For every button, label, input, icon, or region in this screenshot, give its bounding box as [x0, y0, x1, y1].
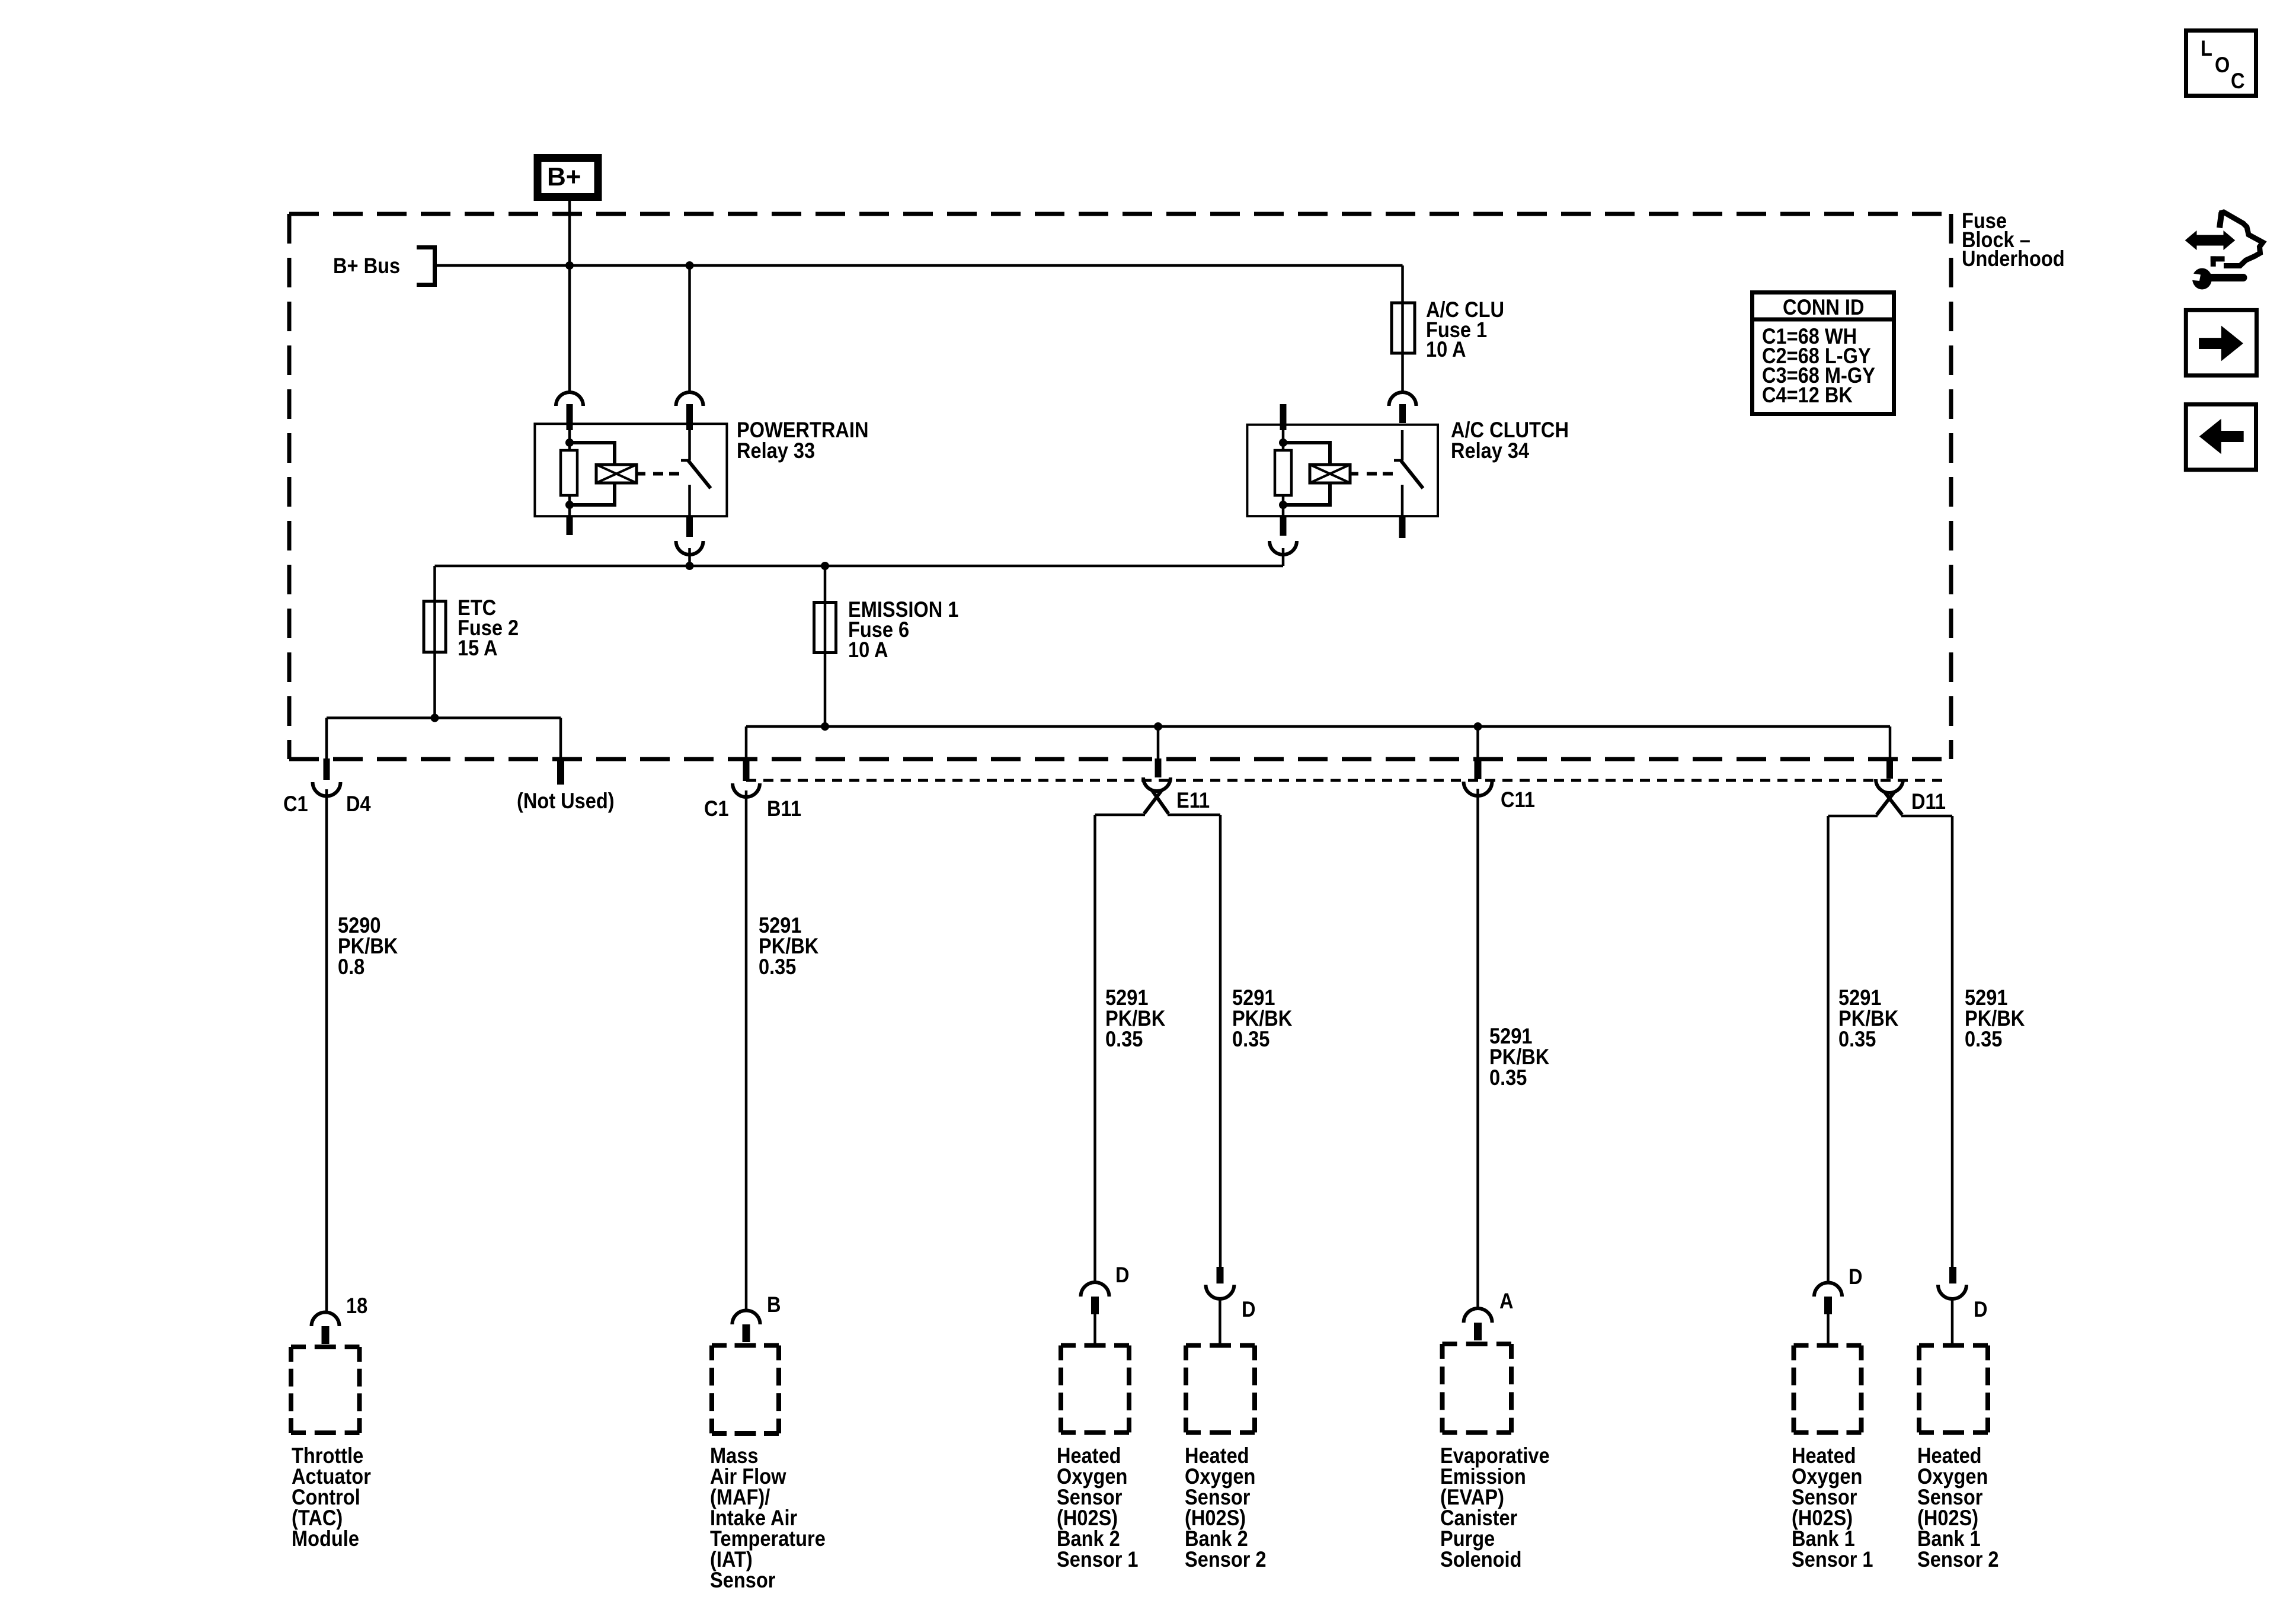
- wire D11 branch right: [1901, 815, 1952, 818]
- wire fuse 2 branch horizontal: [327, 716, 561, 719]
- wire rail to fuse 2: [433, 566, 436, 600]
- relay 33 actuation dashed link: [653, 472, 679, 476]
- previous page arrow: [2200, 420, 2244, 454]
- relay 33 coil box: [596, 465, 637, 483]
- LOC reference box: [2186, 31, 2256, 96]
- node relay 33 coil bottom: [565, 501, 574, 509]
- node B+ bus junction 2: [686, 261, 694, 270]
- wire 5291 B11 to MAF: [745, 790, 748, 1311]
- node rail at fuse 6 feed: [821, 562, 829, 570]
- wire label 5291 C11: [1489, 1026, 1549, 1088]
- relay 34 coil return connector: [1269, 541, 1297, 555]
- connector TAC pin 18: [312, 1313, 340, 1327]
- power symbol B+ box: [538, 158, 598, 197]
- label B+: [547, 167, 581, 187]
- service info vehicle icon double arrow: [2186, 231, 2235, 249]
- wire fuse 2 output: [433, 600, 436, 718]
- relay 34 switch output stub: [1399, 516, 1406, 538]
- relay K33 POWERTRAIN box: [535, 424, 727, 516]
- fuse block dashed border right: [1949, 214, 1953, 759]
- wire fuse 6 output rail: [746, 725, 1890, 728]
- heated oxygen sensor B2S2 box: [1186, 1343, 1255, 1348]
- wire relay 33 switch common: [688, 430, 691, 460]
- wire D11 branch left: [1828, 815, 1878, 818]
- connector C1-B11 socket: [733, 783, 760, 797]
- B+ Bus bracket: [417, 248, 435, 285]
- wire fuse 6 output: [824, 601, 827, 726]
- fuse F1 A/C CLU body: [1392, 303, 1415, 353]
- label CONN ID header: [1783, 297, 1864, 318]
- connector HO2S-B2S1 pin D: [1081, 1282, 1109, 1297]
- wire label 5291 E11 right: [1232, 987, 1292, 1049]
- relay 33 coil stub: [637, 472, 645, 476]
- wire rail to fuse 6: [824, 566, 827, 601]
- node rail at C11: [1474, 722, 1482, 731]
- pin label C1 right: [704, 799, 729, 819]
- pin label 18 TAC: [346, 1296, 367, 1316]
- node fuse 2 branch: [431, 714, 439, 722]
- wire E11 branch left: [1095, 814, 1146, 817]
- connector MAF pin B: [732, 1310, 760, 1324]
- node relay 33 coil top: [565, 438, 574, 447]
- CONN ID table box: [1753, 293, 1894, 414]
- pin label D B1S2: [1974, 1299, 1988, 1320]
- CONN ID table header rule: [1753, 318, 1894, 322]
- EVAP canister purge solenoid box: [1443, 1342, 1512, 1346]
- connector E11 pin stub: [1155, 758, 1162, 777]
- pin label A EVAP: [1499, 1291, 1514, 1311]
- LOC letter O: [2215, 55, 2230, 75]
- service info wrench icon: [2192, 268, 2212, 290]
- fuse F2 ETC body: [424, 601, 446, 652]
- wire label 5291 B11: [759, 915, 818, 977]
- label powertrain relay 33: [737, 420, 868, 461]
- wire relay 34 coil return to rail: [1282, 548, 1285, 566]
- node B+ bus junction 1: [565, 261, 574, 270]
- label fuse 1 A/C CLU 10A: [1426, 300, 1504, 360]
- connector E11 socket: [1143, 777, 1171, 791]
- relay 33 switch blade: [688, 460, 711, 488]
- pin label D4: [346, 794, 371, 814]
- next page arrow box: [2186, 310, 2256, 375]
- fuse F6 EMISSION 1 body: [814, 603, 836, 653]
- fuse block dashed border left: [287, 214, 292, 759]
- node rail at relay 33 output: [686, 562, 694, 570]
- connector C11 pin stub: [1475, 759, 1482, 779]
- wire relay 34 switch common: [1401, 430, 1404, 460]
- label (Not Used): [517, 791, 615, 811]
- relay 34 actuation dashed link: [1367, 472, 1393, 476]
- relay 33 output stub: [686, 517, 693, 537]
- relay 34 coil bottom stub: [1280, 516, 1287, 536]
- relay 34 coil box: [1310, 465, 1350, 483]
- heated oxygen sensor B2S1 box: [1061, 1343, 1129, 1348]
- E11 splice crossover X: [1144, 790, 1162, 814]
- relay 33 coil bottom stub: [567, 517, 573, 535]
- service info vehicle icon outline: [2220, 213, 2221, 228]
- LOC letter C: [2231, 71, 2245, 91]
- connector HO2S-B2S2 pin D: [1217, 1267, 1224, 1283]
- label fuse 2 ETC 15A: [458, 598, 519, 658]
- connector C1-D4 socket: [313, 782, 341, 796]
- pin label C11: [1501, 790, 1535, 810]
- pin label D B1S1: [1849, 1267, 1863, 1287]
- connector EVAP pin A: [1464, 1308, 1492, 1323]
- throttle actuator control TAC module box: [291, 1345, 360, 1349]
- wire label 5291 D11 left: [1838, 987, 1898, 1049]
- pin label E11: [1176, 790, 1210, 811]
- node fuse 6 rail junction: [821, 722, 829, 731]
- next page arrow: [2199, 327, 2243, 361]
- wire not-used drop: [559, 718, 562, 761]
- resistor relay 34 internal: [1275, 450, 1291, 495]
- label HO2S bank2 sensor1: [1057, 1445, 1139, 1570]
- node rail at E11: [1154, 722, 1162, 731]
- wire relay 33 switch contact: [688, 485, 691, 517]
- connector C11 socket: [1464, 782, 1492, 796]
- connector HO2S-B1S1 pin D: [1814, 1282, 1842, 1297]
- wire relay 33 coil branch: [570, 443, 615, 466]
- heated oxygen sensor B1S2 box: [1919, 1343, 1988, 1348]
- pin label D B2S2: [1242, 1299, 1256, 1320]
- harness connector dotted line: [746, 779, 1947, 782]
- label EVAP canister purge solenoid: [1440, 1445, 1550, 1570]
- wire relay 34 coil branch: [1283, 443, 1330, 466]
- relay 34 coil wire bottom: [1282, 495, 1285, 516]
- wire B+ to bus: [568, 201, 571, 392]
- connector C1-B11 pin stub: [743, 759, 750, 781]
- wire label 5291 E11 left: [1105, 987, 1165, 1049]
- pin label C1 left: [283, 794, 308, 814]
- wire label 5291 D11 right: [1965, 987, 2025, 1049]
- label HO2S bank1 sensor1: [1792, 1445, 1873, 1570]
- node relay 34 coil top: [1279, 438, 1287, 447]
- heated oxygen sensor B1S1 box: [1794, 1343, 1862, 1348]
- relay 34 switch blade: [1401, 460, 1424, 488]
- not used terminal stub: [557, 760, 564, 785]
- wire bus to relay 33 switch: [688, 265, 691, 392]
- LOC letter L: [2201, 39, 2212, 59]
- pin label B MAF: [767, 1295, 781, 1315]
- relay 34 coil pin stub: [1280, 404, 1287, 430]
- wire rail to C11: [1476, 726, 1479, 759]
- resistor relay 33 internal: [561, 450, 577, 495]
- pin label D11: [1911, 792, 1946, 812]
- relay 33 coil wire bottom: [568, 495, 571, 517]
- previous page arrow box: [2186, 404, 2256, 469]
- relay 33 output connector: [676, 541, 703, 555]
- relay K34 A/C CLUTCH box: [1247, 425, 1438, 516]
- label HO2S bank2 sensor2: [1185, 1445, 1267, 1570]
- label B+ Bus: [333, 256, 400, 276]
- fuse 1 output connector: [1389, 392, 1416, 406]
- label CONN ID rows: [1762, 327, 1875, 405]
- wire rail to E11: [1157, 726, 1160, 758]
- connector HO2S-B1S2 pin D: [1949, 1267, 1956, 1283]
- wire rail to C1-B11: [745, 726, 748, 759]
- wire E11 branch right: [1168, 814, 1220, 817]
- pin label B11: [767, 799, 801, 819]
- fuse block - underhood dashed border top: [289, 212, 1951, 216]
- wire bus to fuse 1: [1401, 265, 1404, 301]
- label fuse 6 EMISSION 1 10A: [848, 600, 958, 660]
- wire relay 34 switch contact: [1401, 485, 1404, 516]
- relay 33 coil pin connector: [556, 392, 583, 406]
- label A/C clutch relay 34: [1451, 420, 1569, 461]
- label TAC module: [292, 1445, 371, 1549]
- relay 33 switch pivot tick: [681, 459, 690, 462]
- node relay 34 coil bottom: [1279, 501, 1287, 509]
- D11 splice crossover X: [1877, 792, 1895, 815]
- wire rail to D11: [1889, 726, 1892, 759]
- relay 34 coil stub: [1350, 472, 1358, 476]
- fuse block dashed border bottom: [289, 757, 1951, 761]
- label HO2S bank1 sensor2: [1917, 1445, 1999, 1570]
- wire 5290 C1-D4 to TAC: [325, 789, 328, 1313]
- relay 34 switch pivot tick: [1394, 459, 1402, 462]
- wire through fuse 1: [1401, 301, 1404, 392]
- wire switched B+ rail: [435, 565, 1284, 568]
- label MAF IAT sensor: [710, 1445, 826, 1590]
- mass air flow MAF-IAT sensor box: [712, 1343, 779, 1348]
- relay 33 coil wire top: [568, 430, 571, 450]
- connector C1-D4 pin stub: [324, 758, 330, 780]
- label fuse block - underhood: [1962, 212, 2065, 268]
- wire label 5290 PK/BK 0.8: [338, 915, 398, 977]
- pin label D B2S1: [1115, 1265, 1130, 1285]
- connector D11 pin stub: [1886, 759, 1893, 779]
- relay 33 switch pin connector: [676, 392, 703, 406]
- wire B+ Bus horizontal: [433, 264, 1403, 267]
- relay 34 coil wire top: [1282, 430, 1285, 450]
- wire 5291 C11 to EVAP: [1476, 789, 1479, 1308]
- wire relay 33 output to rail: [688, 548, 691, 566]
- connector D11 socket: [1876, 779, 1903, 793]
- wire branch to connector C1-D4: [325, 718, 328, 760]
